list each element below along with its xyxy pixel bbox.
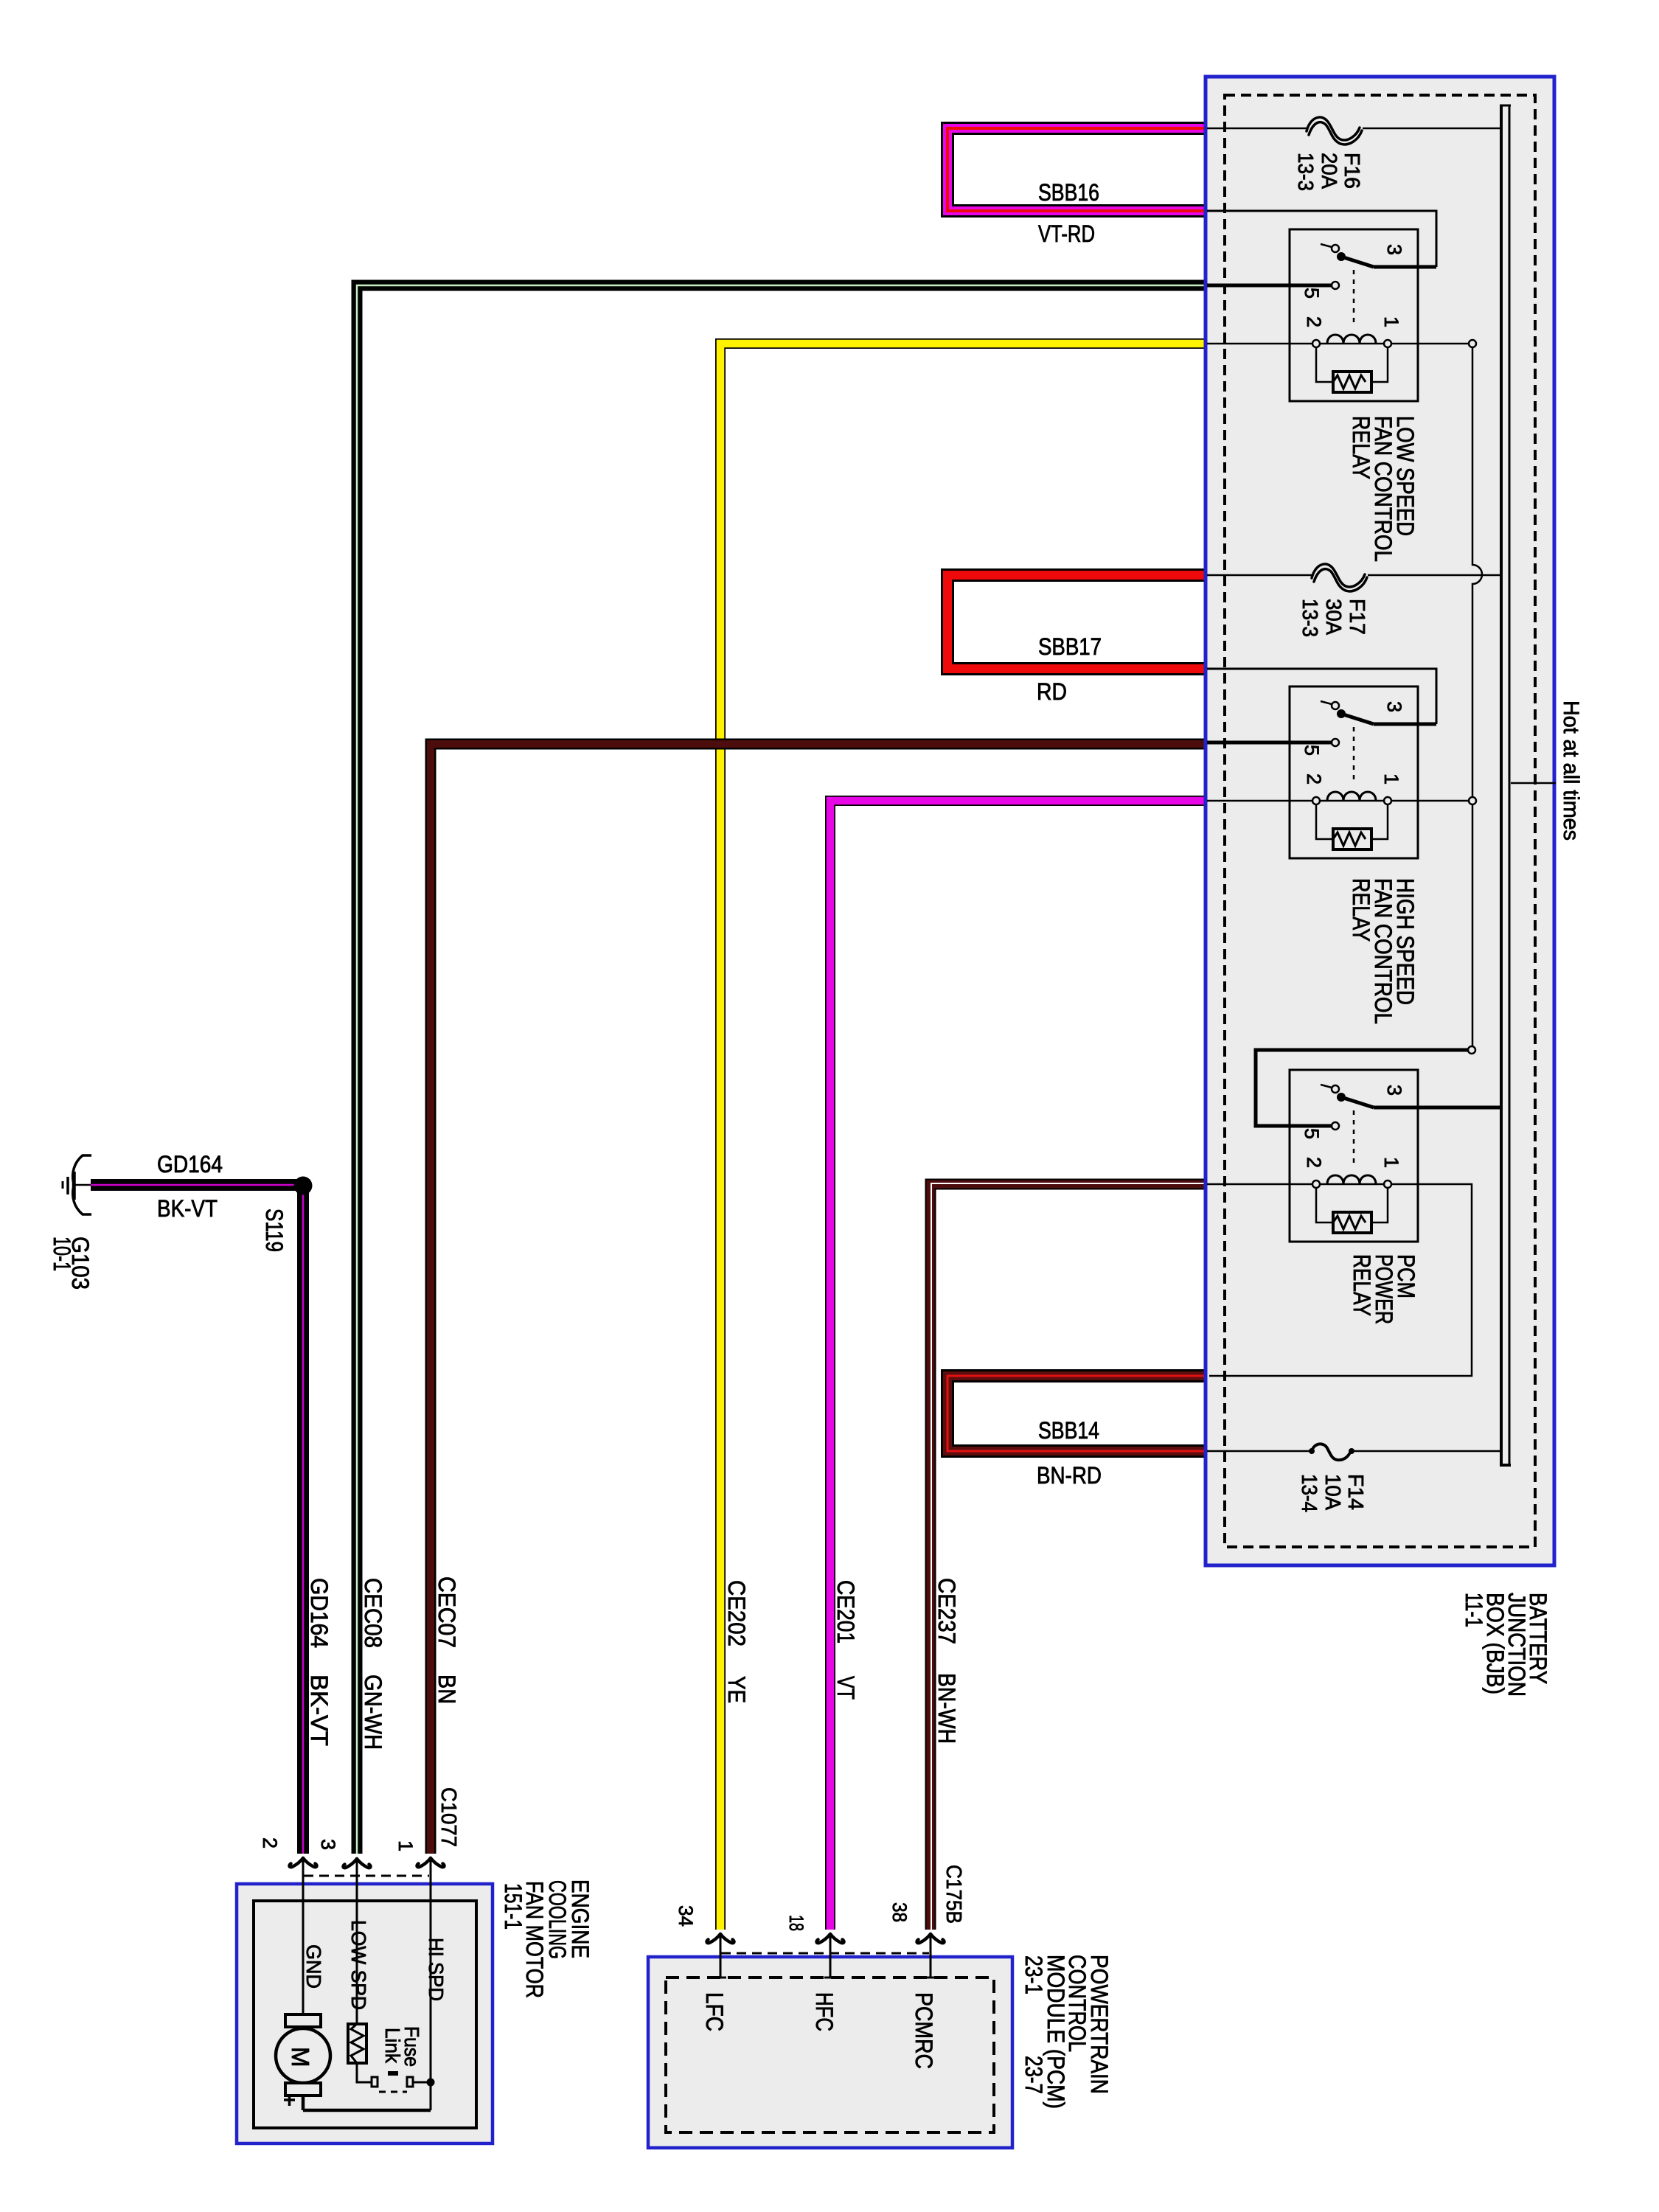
wire CE202 YE <box>720 344 1209 1930</box>
svg-text:C1077: C1077 <box>437 1787 460 1847</box>
svg-text:SBB17: SBB17 <box>1038 633 1102 660</box>
svg-text:151-1: 151-1 <box>500 1883 526 1930</box>
BJB dashed border <box>1225 95 1535 1547</box>
svg-text:M: M <box>287 2047 314 2067</box>
fuse F16 <box>1307 117 1360 140</box>
svg-text:GN-WH: GN-WH <box>360 1674 386 1750</box>
wire: SBB17 feed to fuse F17 <box>1207 574 1312 577</box>
svg-text:RD: RD <box>1037 678 1067 705</box>
svg-text:RELAY: RELAY <box>1348 878 1374 942</box>
svg-text:CE201: CE201 <box>832 1580 859 1644</box>
wire: relay1 coil pin 1 to junction <box>1391 343 1472 345</box>
svg-text:13-4: 13-4 <box>1297 1474 1321 1512</box>
motor + terminal <box>284 2095 295 2106</box>
connector arrow C1077 pin 3 <box>343 1859 370 1868</box>
wire: HFC lead <box>824 1934 836 1978</box>
svg-text:BN: BN <box>434 1674 460 1704</box>
wire: relay coil junction bus (vertical) with hop <box>1472 347 1482 1046</box>
svg-text:SBB14: SBB14 <box>1038 1417 1099 1444</box>
wire: SBB14 feed to fuse F14 <box>1207 1450 1311 1453</box>
relay: high speed fan control relay <box>1290 686 1418 858</box>
wire: PCMRC lead <box>925 1934 936 1978</box>
motor M1 <box>285 2014 321 2027</box>
powertrain control module box <box>648 1957 1012 2148</box>
svg-text:3: 3 <box>317 1839 339 1850</box>
svg-text:34: 34 <box>675 1905 697 1927</box>
connector arrow C175B pin 38 <box>917 1934 944 1943</box>
wire: LFC lead <box>714 1934 726 1978</box>
svg-text:PCMRC: PCMRC <box>911 1992 937 2069</box>
wire: GND lead <box>302 1858 305 2014</box>
connector arrow C175B pin 34 <box>706 1934 734 1943</box>
svg-text:VT-RD: VT-RD <box>1038 220 1095 247</box>
relay: PCM power relay <box>1290 1070 1418 1242</box>
fuse F14 <box>1309 1448 1315 1454</box>
svg-text:BN-WH: BN-WH <box>933 1673 960 1744</box>
svg-text:BK-VT: BK-VT <box>306 1674 333 1746</box>
svg-text:1: 1 <box>394 1840 417 1851</box>
wire: relay2 coil pin 1 to junction <box>1391 800 1472 802</box>
node: fuse link junction <box>427 2079 435 2087</box>
svg-text:38: 38 <box>888 1902 911 1922</box>
svg-text:LOW SPD: LOW SPD <box>347 1920 370 2010</box>
fuse link <box>372 2077 378 2087</box>
wire: relay1 pin 5 feed (GN-WH) <box>1207 284 1332 288</box>
svg-text:RELAY: RELAY <box>1348 416 1374 479</box>
wire: SBB16 feed to fuse F16 <box>1207 128 1307 130</box>
wire: relay3 pin 5 feed from junction bus <box>1256 1050 1472 1126</box>
wire: fuse F14 to busbar <box>1352 1450 1501 1453</box>
wire: fuse link to HI SPD lead <box>413 2081 431 2084</box>
PCM dashed border <box>666 1978 994 2132</box>
svg-text:HFC: HFC <box>811 1992 838 2031</box>
svg-text:13-3: 13-3 <box>1298 599 1321 637</box>
wire: relay3 pin 3 to busbar <box>1374 1106 1501 1110</box>
wire SBB14 BN-RD <box>947 1376 1209 1451</box>
svg-text:F16: F16 <box>1340 153 1363 189</box>
connector arrow C1077 pin 1 <box>417 1858 444 1867</box>
wire CE237 BN-WH <box>931 1184 1209 1930</box>
node: relay1 coil junction <box>1469 340 1476 347</box>
svg-text:GD164: GD164 <box>157 1151 223 1178</box>
svg-text:10A: 10A <box>1321 1474 1344 1511</box>
svg-text:30A: 30A <box>1321 599 1345 636</box>
fan motor inner box <box>254 1901 476 2128</box>
svg-text:HI SPD: HI SPD <box>425 1938 448 2001</box>
wire: relay3 coil pin 1 to SBB14 <box>1209 1184 1472 1376</box>
svg-text:CEC08: CEC08 <box>360 1578 386 1648</box>
svg-text:YE: YE <box>723 1676 750 1703</box>
svg-text:C175B: C175B <box>942 1865 965 1924</box>
svg-text:11-1: 11-1 <box>1461 1593 1487 1627</box>
connector arrow C1077 pin 2 <box>289 1858 316 1867</box>
hot at all times callout line <box>1511 782 1556 785</box>
wire CEC07 BN <box>431 744 1209 1854</box>
svg-text:18: 18 <box>785 1915 807 1931</box>
fuse F17 <box>1312 564 1365 587</box>
wire GD164 BK-VT <box>91 1185 303 1854</box>
wire: LOW SPD lead <box>356 1859 358 2024</box>
svg-text:2: 2 <box>259 1837 281 1848</box>
ground G103 <box>73 1155 91 1214</box>
svg-text:23-7: 23-7 <box>1020 2056 1047 2094</box>
connector C175B dashed line <box>721 1952 929 1955</box>
svg-text:13-3: 13-3 <box>1293 153 1317 191</box>
relay: low speed fan control relay <box>1290 229 1418 401</box>
svg-text:GND: GND <box>302 1944 325 1989</box>
svg-text:RELAY: RELAY <box>1349 1254 1375 1316</box>
svg-text:F17: F17 <box>1345 599 1368 635</box>
svg-text:Link: Link <box>381 2028 404 2064</box>
connector C1077 dashed line <box>304 1875 429 1877</box>
svg-text:BN-RD: BN-RD <box>1037 1462 1102 1489</box>
wire CE201 VT <box>830 801 1209 1930</box>
svg-text:GD164: GD164 <box>306 1578 333 1648</box>
wire: SBB16 to relay1 pin 3 <box>1207 211 1436 267</box>
battery junction box (BJB) outline <box>1206 77 1554 1565</box>
svg-text:S119: S119 <box>261 1208 288 1252</box>
wire: fuse F16 to busbar <box>1363 128 1501 130</box>
svg-text:CEC07: CEC07 <box>434 1576 460 1648</box>
svg-text:CE202: CE202 <box>723 1580 750 1646</box>
svg-text:10-1: 10-1 <box>49 1237 75 1271</box>
svg-text:23-1: 23-1 <box>1020 1955 1047 1994</box>
svg-text:VT: VT <box>832 1676 859 1700</box>
wire SBB16 VT-RD <box>947 128 1209 211</box>
svg-text:20A: 20A <box>1317 153 1340 189</box>
busbar (hot at all times) <box>1500 105 1503 1465</box>
wire: relay2 coil pin 2 feed (VT) <box>1207 800 1312 802</box>
engine cooling fan motor box <box>237 1884 493 2143</box>
wire: resistor to fuse link <box>357 2063 372 2082</box>
wire: relay2 pin 5 feed (BN) <box>1207 741 1332 745</box>
svg-text:SBB16: SBB16 <box>1038 179 1099 206</box>
svg-text:LFC: LFC <box>701 1992 728 2031</box>
node: splice S119 <box>294 1177 313 1195</box>
wire: SBB17 to relay2 pin 3 <box>1207 669 1436 724</box>
svg-text:BK-VT: BK-VT <box>157 1195 218 1222</box>
wire: motor to bottom bus <box>303 2096 431 2110</box>
node: relay3 feed junction <box>1468 1046 1475 1054</box>
wire: HI SPD lead <box>430 1858 432 2110</box>
wire: relay3 coil pin 2 feed (BN-WH) <box>1207 1183 1312 1186</box>
node: relay2 coil junction <box>1469 797 1476 804</box>
wire SBB17 RD <box>947 575 1209 669</box>
svg-text:CE237: CE237 <box>933 1578 960 1644</box>
wire: fuse F17 to busbar <box>1368 574 1501 577</box>
resistor: low speed dropping resistor <box>348 2024 366 2063</box>
svg-text:F14: F14 <box>1343 1474 1367 1510</box>
svg-text:Hot at all times: Hot at all times <box>1559 700 1583 841</box>
wire: relay1 coil pin 2 feed (YE) <box>1207 343 1312 345</box>
wire CEC08 GN-WH <box>357 285 1209 1854</box>
connector arrow C175B pin 18 <box>816 1934 844 1943</box>
